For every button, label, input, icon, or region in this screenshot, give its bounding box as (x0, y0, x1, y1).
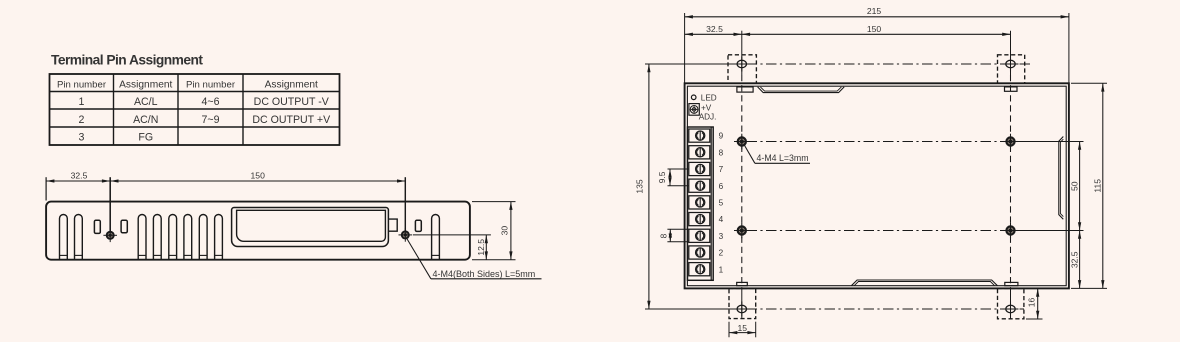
side view dim 30 (472, 201, 516, 203)
svg-text:12.5: 12.5 (476, 239, 486, 256)
top view dim 135 (648, 64, 650, 309)
svg-text:2: 2 (79, 114, 85, 126)
svg-text:DC OUTPUT -V: DC OUTPUT -V (254, 96, 330, 108)
side view label recess inner (237, 210, 386, 241)
dim 8 (terminal width) (667, 229, 688, 242)
top view dim 215 (685, 16, 1069, 18)
leader 4-M4 L=3mm (744, 145, 810, 164)
svg-text:8: 8 (719, 148, 724, 157)
svg-text:9: 9 (719, 132, 724, 141)
svg-text:4: 4 (719, 215, 724, 224)
svg-text:1: 1 (719, 265, 724, 274)
svg-text:3: 3 (79, 132, 85, 144)
svg-text:215: 215 (867, 6, 882, 16)
side view right tab (388, 219, 397, 231)
svg-text:1: 1 (79, 96, 85, 108)
svg-text:50: 50 (1069, 181, 1079, 191)
bracket mounting holes (crosshair) (734, 57, 750, 72)
centerlines (649, 63, 1030, 65)
svg-text:16: 16 (1027, 298, 1037, 308)
terminal block outline (688, 127, 714, 280)
dim 9.5 (pin pitch) (668, 169, 689, 186)
svg-text:8: 8 (659, 233, 669, 238)
dim 32.5 right (1079, 231, 1081, 289)
svg-text:LED: LED (701, 93, 717, 102)
svg-text:AC/N: AC/N (133, 114, 158, 126)
top view right seam (1059, 137, 1064, 220)
+V ADJ potentiometer (689, 104, 699, 116)
side view label recess outer (232, 208, 389, 247)
dashed mounting bracket boxes (728, 55, 756, 83)
side view leader line 4-M4 (407, 238, 431, 279)
top view inner lip (687, 86, 1066, 286)
top view dim 150 (742, 33, 1011, 35)
side view vent slots (60, 215, 68, 260)
dim 15 (728, 322, 730, 338)
pin assignment table grid (50, 74, 340, 145)
terminal 3 (689, 229, 710, 242)
top view bottom seam (851, 280, 997, 286)
side view mounting screw left (103, 229, 117, 243)
svg-text:4-M4(Both Sides) L=5mm: 4-M4(Both Sides) L=5mm (433, 269, 536, 279)
terminal 1 (689, 263, 710, 276)
terminal 7 (689, 162, 710, 175)
svg-text:9.5: 9.5 (657, 171, 667, 183)
svg-text:32.5: 32.5 (706, 24, 723, 34)
svg-text:6: 6 (719, 182, 724, 191)
svg-text:32.5: 32.5 (71, 170, 88, 180)
svg-text:Assignment: Assignment (119, 80, 172, 91)
svg-text:7~9: 7~9 (202, 114, 220, 126)
side view body outline (46, 202, 470, 260)
svg-text:DC OUTPUT +V: DC OUTPUT +V (252, 114, 331, 126)
dim 50 (1017, 141, 1084, 143)
top view dim 32.5 (685, 33, 742, 35)
side view small rectangular holes (94, 220, 100, 233)
svg-text:ADJ.: ADJ. (699, 113, 717, 122)
svg-text:30: 30 (500, 226, 510, 236)
chassis screw holes 4-M4 (734, 134, 750, 150)
top view body outline (685, 83, 1069, 288)
dim 115 (1071, 82, 1107, 84)
svg-text:3: 3 (719, 232, 724, 241)
svg-text:Pin number: Pin number (186, 79, 236, 90)
terminal 8 (689, 146, 710, 159)
svg-text:135: 135 (635, 179, 645, 194)
top view top seam (758, 87, 845, 93)
terminal 9 (689, 129, 710, 142)
svg-text:150: 150 (867, 24, 882, 34)
svg-text:150: 150 (251, 170, 266, 180)
terminal 6 (689, 179, 710, 192)
dim 16 (1026, 318, 1043, 320)
svg-text:7: 7 (719, 165, 724, 174)
svg-text:5: 5 (719, 199, 724, 208)
side view dim 150 line (110, 180, 405, 182)
svg-text:Pin number: Pin number (57, 79, 107, 90)
svg-text:15: 15 (738, 323, 748, 333)
LED indicator (691, 95, 696, 100)
top view mounting tabs (737, 87, 753, 92)
svg-text:4-M4 L=3mm: 4-M4 L=3mm (757, 153, 809, 163)
svg-text:FG: FG (138, 132, 153, 144)
svg-text:Assignment: Assignment (265, 80, 318, 91)
side view dim 12.5 (413, 234, 491, 236)
terminal 4 (689, 213, 710, 226)
svg-text:4~6: 4~6 (202, 96, 220, 108)
svg-text:115: 115 (1092, 179, 1102, 193)
svg-text:32.5: 32.5 (1069, 251, 1079, 268)
terminal 2 (689, 246, 710, 259)
svg-text:2: 2 (719, 249, 724, 258)
side view mounting screw right (399, 228, 413, 242)
side view extension lines (45, 177, 47, 200)
svg-text:Terminal Pin Assignment: Terminal Pin Assignment (51, 53, 203, 68)
terminal 5 (689, 196, 710, 209)
svg-text:AC/L: AC/L (134, 96, 158, 108)
side view dim 32.5 line (46, 180, 110, 182)
svg-text:+V: +V (701, 103, 712, 112)
